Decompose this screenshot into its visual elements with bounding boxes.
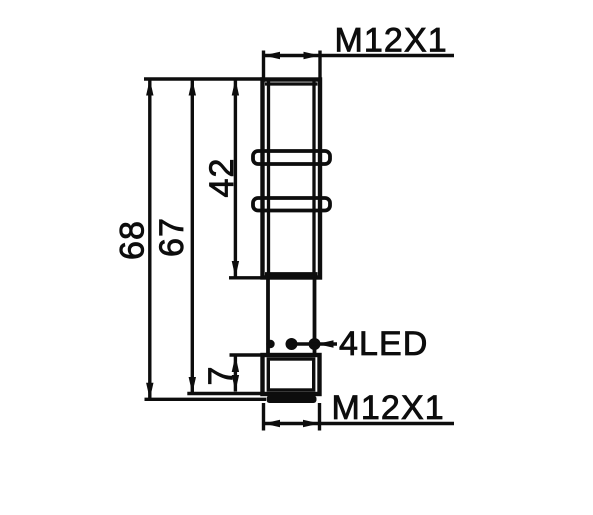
bottom dimension arrow left bbox=[264, 420, 281, 427]
sensor barrel outer (threaded body) bbox=[263, 80, 321, 278]
svg-text:67: 67 bbox=[153, 217, 191, 257]
LED leader arrowhead bbox=[317, 340, 334, 347]
hex nut upper bbox=[253, 151, 330, 164]
bottom cap inner bbox=[268, 359, 313, 390]
bottom cap extension line left bbox=[262, 403, 265, 431]
bottom extension line for 67 and 7 bbox=[187, 392, 262, 395]
dimension line 7 bbox=[234, 356, 237, 392]
body lower narrow section bbox=[268, 278, 315, 356]
top extension line right bbox=[318, 51, 321, 78]
left top extension line (68/67/42) bbox=[144, 77, 262, 80]
extension line for 42 bottom bbox=[229, 276, 262, 279]
top dimension arrow right bbox=[304, 52, 321, 59]
svg-text:M12X1: M12X1 bbox=[332, 389, 445, 427]
bottom cap extension line right bbox=[318, 403, 321, 431]
bottom extension line for 68 bbox=[145, 398, 267, 401]
top dimension arrow left bbox=[264, 52, 281, 59]
svg-text:42: 42 bbox=[203, 157, 241, 197]
dimension line 42 bbox=[234, 79, 237, 278]
dimension line 68 bbox=[148, 79, 151, 399]
LED leader line bbox=[292, 342, 338, 345]
LED indicator dots bbox=[266, 338, 320, 350]
dimension line 67 bbox=[191, 79, 194, 394]
extension line for 7 top bbox=[230, 353, 263, 356]
hex nut lower bbox=[253, 198, 330, 211]
svg-text:4LED: 4LED bbox=[339, 325, 428, 363]
bottom M12X1 dimension line bbox=[264, 422, 455, 425]
sensing face bar bbox=[267, 396, 317, 404]
bottom dimension arrow right bbox=[303, 420, 320, 427]
top extension line left bbox=[262, 51, 265, 78]
svg-text:M12X1: M12X1 bbox=[335, 22, 448, 60]
svg-text:68: 68 bbox=[113, 220, 151, 260]
sensor barrel inner thread lines bbox=[265, 81, 318, 276]
top M12X1 dimension line bbox=[264, 54, 455, 57]
svg-text:7: 7 bbox=[202, 365, 240, 385]
bottom cap outer bbox=[263, 355, 320, 394]
